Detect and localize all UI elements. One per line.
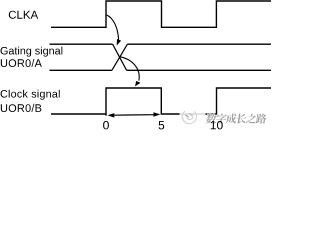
wire gating low rail right: [127, 69, 271, 71]
wire arrow arc from X to clock edge: [121, 57, 140, 81]
wire clock UOR0/B waveform: [51, 88, 271, 114]
node tick 0: [105, 114, 107, 116]
wire CLKA waveform: [51, 1, 271, 27]
node Gating signal label: [1, 47, 63, 57]
wire gating low rail left: [50, 69, 112, 71]
wire arrow arc from CLKA edge to X: [107, 15, 119, 40]
node X crossing rising diagonal: [112, 44, 128, 70]
node UOR0/B label: [1, 104, 42, 112]
wire gating high rail right: [127, 43, 271, 45]
watermark logo circle: [182, 112, 196, 124]
node X crossing falling diagonal: [113, 44, 127, 70]
node label 0: [103, 121, 109, 129]
wire dimension arrow 0-5: [112, 114, 155, 117]
watermark backdrop over low line: [180, 113, 206, 116]
node label 10: [211, 121, 223, 129]
node CLKA label: [9, 11, 38, 19]
watermark text 数字成长之路: [206, 113, 268, 123]
node UOR0/A label: [1, 59, 42, 67]
node Clock signal label: [1, 90, 60, 100]
wire gating high rail left: [50, 43, 113, 45]
node label 5: [159, 121, 165, 129]
